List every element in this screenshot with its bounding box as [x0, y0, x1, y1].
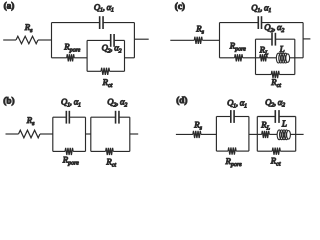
- block1 right vertical (d): [248, 117, 250, 152]
- block1 top wire left (b): [53, 116, 67, 118]
- outer box right vertical (c): [302, 23, 304, 58]
- wire inner to outer connector (a): [125, 57, 135, 59]
- block2 bottom wire right (d): [280, 150, 295, 152]
- block2 bottom wire left (b): [91, 150, 106, 152]
- capacitor Q1 (c): [257, 16, 259, 29]
- resistor Rs (c): [194, 37, 202, 44]
- svg-text:(c): (c): [175, 1, 185, 11]
- wire top branch right (c): [262, 22, 304, 24]
- inductor L (d): [277, 130, 281, 140]
- resistor Rct (d): [272, 148, 280, 155]
- resistor Rs (b): [19, 130, 40, 138]
- block1 right vertical (b): [85, 117, 87, 151]
- wire top branch left (a): [52, 22, 100, 24]
- wire inner to outer connector (c): [295, 57, 303, 59]
- capacitor Q2 (c): [271, 33, 273, 46]
- wire top branch right (a): [103, 22, 134, 24]
- block1 bottom wire left (d): [216, 150, 228, 152]
- wire Rs to node (a): [38, 39, 52, 41]
- block1 top wire right (b): [69, 116, 85, 118]
- resistor RL (d): [262, 131, 270, 138]
- wire input (a): [3, 39, 16, 41]
- wire inner top right (a): [114, 39, 124, 41]
- wire output (b): [130, 133, 138, 135]
- svg-text:L: L: [281, 118, 287, 128]
- capacitor Q1 (a): [99, 16, 101, 29]
- block1 bottom wire right (d): [236, 150, 249, 152]
- wire Rpore to inner box (a): [74, 57, 87, 59]
- wire inductor to box right (c): [290, 57, 295, 59]
- block2 top wire left (b): [91, 116, 116, 118]
- resistor Rs (a): [16, 36, 38, 44]
- wire Rpore to inner box (c): [243, 57, 256, 59]
- block1 left vertical (d): [215, 117, 217, 152]
- capacitor Q1 (d): [230, 110, 232, 123]
- block1 top wire right (d): [234, 116, 249, 118]
- wire output (a): [134, 38, 148, 40]
- svg-text:L: L: [279, 44, 285, 54]
- wire inner bottom right (c): [279, 74, 295, 76]
- inner box right vertical (c): [294, 39, 296, 74]
- wire inner bottom left (c): [256, 74, 272, 76]
- resistor RL (c): [260, 54, 268, 61]
- block1 left vertical (b): [52, 117, 54, 151]
- wire bottom branch left (c): [220, 57, 235, 59]
- block2 right vertical (d): [295, 117, 297, 152]
- capacitor Q1 (b): [65, 111, 67, 124]
- svg-text:(d): (d): [176, 95, 187, 105]
- wire input (c): [170, 39, 194, 41]
- capacitor Q2 (b): [115, 111, 117, 124]
- block2 bottom wire left (d): [257, 150, 272, 152]
- resistor Rpore (d): [228, 148, 236, 155]
- block1 top wire left (d): [216, 116, 230, 118]
- wire inductor to box right (d): [290, 133, 295, 135]
- capacitor Q2 (a): [110, 34, 112, 47]
- block1 bottom wire right (b): [73, 150, 85, 152]
- wire top branch left (c): [220, 22, 259, 24]
- block2 top wire left (d): [257, 116, 275, 118]
- wire RL branch left (c): [256, 57, 260, 59]
- wire Rs to block1 (b): [40, 133, 53, 135]
- resistor Rpore (c): [235, 54, 243, 61]
- wire Rs to node (c): [202, 39, 219, 41]
- wire bottom branch left (a): [52, 57, 67, 59]
- inductor L (c): [276, 53, 280, 63]
- inner box left vertical (c): [255, 39, 257, 74]
- wire inner bottom right (a): [110, 70, 125, 72]
- svg-text:(b): (b): [3, 96, 14, 106]
- outer box right vertical (a): [133, 23, 135, 58]
- wire inner top right (c): [276, 38, 295, 40]
- block1 bottom wire left (b): [53, 150, 65, 152]
- svg-text:(a): (a): [4, 0, 15, 10]
- block2 right vertical (b): [129, 117, 131, 151]
- inner box right vertical (a): [124, 40, 126, 71]
- wire Rs to block1 (d): [201, 133, 217, 135]
- wire connector block1-block2 (d): [249, 133, 257, 135]
- wire connector block1-block2 (b): [86, 133, 91, 135]
- outer box left vertical (c): [219, 23, 221, 58]
- block2 left vertical (b): [90, 117, 92, 151]
- resistor Rpore (b): [65, 148, 73, 155]
- resistor Rs (d): [193, 131, 201, 138]
- resistor Rpore (a): [67, 54, 75, 61]
- wire output (c): [303, 38, 310, 40]
- block2 left vertical (d): [256, 117, 258, 152]
- wire inner top left (a): [87, 39, 111, 41]
- wire input (b): [6, 133, 19, 135]
- wire RL to inductor (c): [267, 57, 276, 59]
- node left junction (a) : outer box left vertical: [51, 23, 53, 58]
- wire output (d): [296, 133, 304, 135]
- wire RL branch left (d): [257, 133, 262, 135]
- block2 top wire right (d): [279, 116, 296, 118]
- wire RL to inductor (d): [269, 133, 277, 135]
- block2 top wire right (b): [119, 116, 130, 118]
- wire inner top left (c): [256, 38, 272, 40]
- wire input (d): [176, 133, 193, 135]
- resistor Rct (b): [106, 148, 114, 155]
- block2 bottom wire right (b): [113, 150, 130, 152]
- resistor Rct (c): [271, 71, 279, 78]
- resistor Rct (a): [101, 68, 109, 75]
- wire inner bottom left (a): [87, 70, 101, 72]
- inner box left vertical (a): [86, 40, 88, 71]
- capacitor Q2 (d): [274, 110, 276, 123]
